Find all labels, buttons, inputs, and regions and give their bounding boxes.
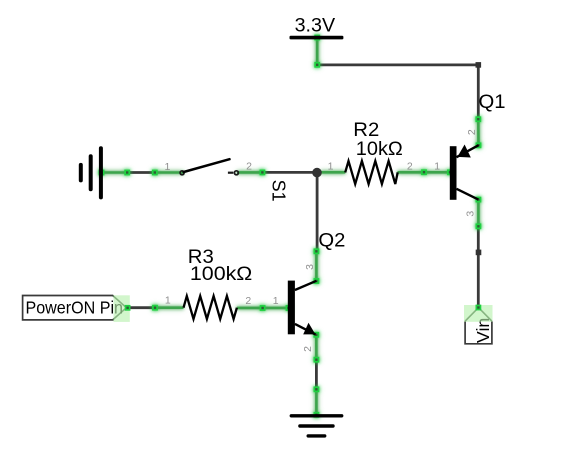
net label PowerON Pin — [23, 295, 131, 322]
svg-text:S1: S1 — [268, 180, 288, 202]
wire from corner down to Q1 pin 2 (vertical) — [477, 65, 480, 119]
left ground symbol (rotated) — [81, 148, 101, 197]
bendpoint on 3.3V wire corner — [476, 62, 482, 68]
resistor R2 zigzag — [345, 161, 398, 184]
svg-text:2: 2 — [407, 161, 413, 173]
svg-text:2: 2 — [466, 129, 478, 135]
wire from switch S1 pin 2 to junction node — [262, 171, 317, 174]
wire from junction node down to Q2 pin 3 — [316, 172, 319, 251]
wire from 3.3V corner to Q1 top (horizontal) — [317, 64, 478, 67]
svg-text:1: 1 — [434, 161, 440, 173]
svg-text:100kΩ: 100kΩ — [190, 263, 252, 285]
bendpoint on Q1-Vin wire — [476, 250, 482, 256]
wire from Q2 pin 2 to bottom ground — [315, 360, 318, 390]
wire from PowerON Pin label to R3 pin 1 — [126, 306, 155, 309]
svg-text:2: 2 — [245, 295, 251, 307]
svg-text:1: 1 — [164, 161, 170, 173]
svg-text:1: 1 — [165, 295, 171, 307]
svg-text:1: 1 — [273, 295, 279, 307]
power symbol 3.3V bar — [290, 36, 344, 40]
svg-text:Q1: Q1 — [479, 91, 506, 113]
wire from Q1 pin 3 down to Vin label — [477, 226, 480, 307]
switch S1 — [180, 159, 238, 175]
net label Vin — [464, 305, 493, 344]
transistor Q2 (NPN) — [288, 281, 317, 335]
resistor R3 zigzag — [184, 296, 237, 319]
wire from left ground to switch S1 pin 1 — [127, 171, 155, 174]
svg-text:10kΩ: 10kΩ — [356, 138, 403, 160]
green net highlight glow — [99, 35, 482, 418]
svg-text:3: 3 — [304, 264, 316, 270]
svg-text:1: 1 — [328, 161, 334, 173]
svg-text:3.3V: 3.3V — [295, 16, 336, 37]
svg-text:Q2: Q2 — [318, 229, 345, 251]
svg-text:2: 2 — [302, 346, 314, 352]
transistor Q1 (PNP) — [450, 145, 479, 200]
svg-text:2: 2 — [246, 161, 252, 173]
svg-text:3: 3 — [464, 211, 476, 217]
bottom ground symbol — [291, 416, 341, 436]
junction node (S1 / R2 / Q2 net) — [312, 168, 322, 178]
svg-text:PowerON Pin: PowerON Pin — [26, 298, 124, 318]
